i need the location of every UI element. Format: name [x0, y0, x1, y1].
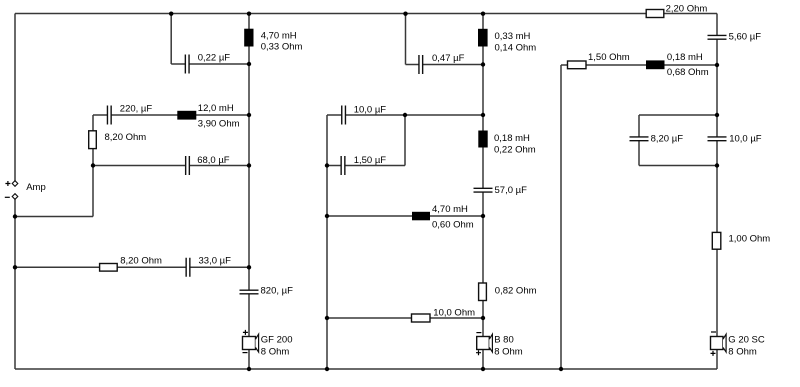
svg-text:0,68 Ohm: 0,68 Ohm	[667, 67, 709, 78]
svg-text:10,0 Ohm: 10,0 Ohm	[433, 307, 475, 318]
svg-text:10,0 µF: 10,0 µF	[354, 104, 387, 115]
svg-text:1,00 Ohm: 1,00 Ohm	[729, 234, 771, 245]
svg-text:57,0 µF: 57,0 µF	[495, 185, 528, 196]
svg-text:820, µF: 820, µF	[261, 286, 294, 297]
svg-text:0,14 Ohm: 0,14 Ohm	[495, 43, 537, 54]
svg-text:4,70 mH: 4,70 mH	[261, 30, 297, 41]
svg-text:12,0 mH: 12,0 mH	[198, 103, 234, 114]
svg-text:4,70 mH: 4,70 mH	[432, 204, 468, 215]
svg-text:0,47 µF: 0,47 µF	[432, 53, 465, 64]
svg-text:8,20 Ohm: 8,20 Ohm	[105, 132, 147, 143]
svg-text:8 Ohm: 8 Ohm	[261, 347, 290, 358]
svg-text:33,0 µF: 33,0 µF	[199, 255, 232, 266]
svg-text:8,20 Ohm: 8,20 Ohm	[120, 255, 162, 266]
svg-text:220, µF: 220, µF	[120, 104, 153, 115]
svg-text:1,50 Ohm: 1,50 Ohm	[588, 52, 630, 63]
svg-text:2,20 Ohm: 2,20 Ohm	[666, 4, 708, 15]
svg-text:8 Ohm: 8 Ohm	[494, 346, 523, 357]
svg-text:8,20 µF: 8,20 µF	[651, 133, 684, 144]
svg-text:0,22 Ohm: 0,22 Ohm	[494, 144, 536, 155]
svg-text:1,50 µF: 1,50 µF	[354, 155, 387, 166]
svg-text:GF 200: GF 200	[261, 334, 293, 345]
svg-text:8 Ohm: 8 Ohm	[728, 347, 757, 358]
svg-text:B 80: B 80	[494, 334, 514, 345]
svg-text:10,0 µF: 10,0 µF	[729, 133, 762, 144]
svg-text:0,82 Ohm: 0,82 Ohm	[495, 285, 537, 296]
svg-text:Amp: Amp	[26, 182, 46, 193]
svg-text:68,0 µF: 68,0 µF	[197, 155, 230, 166]
svg-text:0,22 µF: 0,22 µF	[198, 52, 231, 63]
svg-text:0,18 mH: 0,18 mH	[494, 133, 530, 144]
svg-text:3,90 Ohm: 3,90 Ohm	[198, 118, 240, 129]
svg-text:0,18 mH: 0,18 mH	[667, 52, 703, 63]
svg-text:5,60 µF: 5,60 µF	[729, 31, 762, 42]
svg-text:G 20 SC: G 20 SC	[728, 334, 765, 345]
svg-text:0,33 mH: 0,33 mH	[495, 31, 531, 42]
svg-text:0,33 Ohm: 0,33 Ohm	[261, 42, 303, 53]
svg-text:0,60 Ohm: 0,60 Ohm	[432, 220, 474, 231]
